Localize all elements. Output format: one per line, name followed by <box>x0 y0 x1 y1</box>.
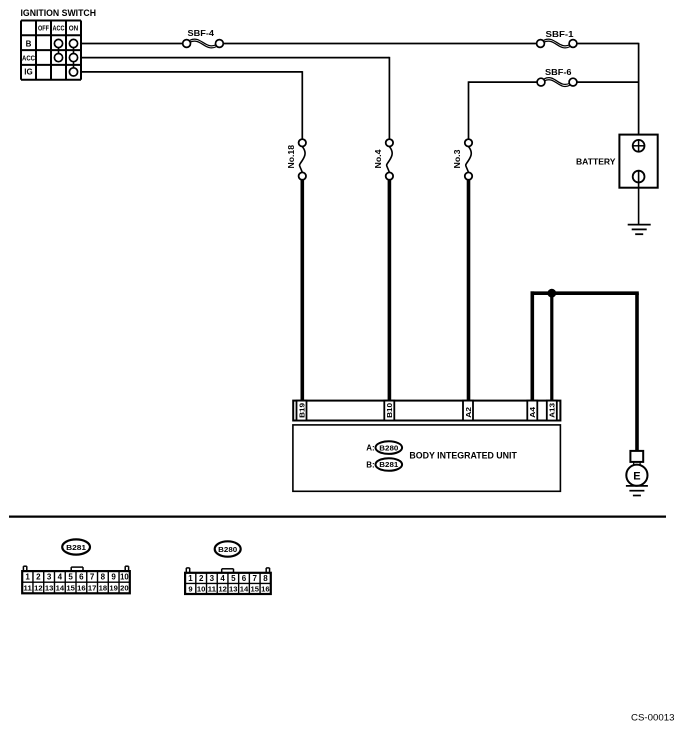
svg-text:B280: B280 <box>218 545 237 554</box>
svg-text:SBF-1: SBF-1 <box>546 29 574 39</box>
svg-text:20: 20 <box>120 584 129 593</box>
svg-text:ON: ON <box>69 24 79 33</box>
svg-text:A13: A13 <box>548 403 557 418</box>
svg-text:E: E <box>633 470 640 482</box>
svg-text:A4: A4 <box>528 407 537 418</box>
svg-text:18: 18 <box>99 584 108 593</box>
svg-text:5: 5 <box>231 574 236 583</box>
svg-text:10: 10 <box>197 584 206 593</box>
svg-text:A2: A2 <box>464 407 473 418</box>
svg-text:2: 2 <box>36 573 41 582</box>
svg-text:ACC: ACC <box>53 24 65 33</box>
svg-text:9: 9 <box>111 573 116 582</box>
svg-text:9: 9 <box>188 584 192 593</box>
svg-text:IGNITION SWITCH: IGNITION SWITCH <box>21 8 97 18</box>
svg-text:3: 3 <box>210 574 215 583</box>
svg-text:6: 6 <box>79 573 84 582</box>
svg-text:16: 16 <box>77 584 86 593</box>
svg-text:SBF-4: SBF-4 <box>188 28 215 38</box>
svg-text:B:: B: <box>366 460 374 469</box>
svg-text:19: 19 <box>109 584 118 593</box>
svg-text:17: 17 <box>88 584 97 593</box>
svg-text:10: 10 <box>120 573 129 582</box>
svg-text:15: 15 <box>250 584 259 593</box>
svg-text:OFF: OFF <box>38 24 49 33</box>
svg-text:14: 14 <box>56 584 65 593</box>
svg-text:1: 1 <box>188 574 193 583</box>
svg-text:13: 13 <box>45 584 54 593</box>
svg-text:5: 5 <box>68 573 73 582</box>
svg-text:4: 4 <box>220 574 225 583</box>
svg-text:2: 2 <box>199 574 204 583</box>
svg-text:7: 7 <box>252 574 257 583</box>
svg-text:BODY INTEGRATED UNIT: BODY INTEGRATED UNIT <box>409 451 517 461</box>
svg-text:3: 3 <box>47 573 52 582</box>
svg-text:CS-00013: CS-00013 <box>631 713 675 724</box>
svg-text:B280: B280 <box>379 443 398 452</box>
svg-text:B281: B281 <box>66 543 86 552</box>
svg-text:11: 11 <box>208 584 217 593</box>
svg-text:12: 12 <box>218 584 227 593</box>
svg-text:12: 12 <box>34 584 43 593</box>
svg-text:A:: A: <box>366 443 374 452</box>
svg-text:BATTERY: BATTERY <box>576 156 616 166</box>
svg-text:No.4: No.4 <box>373 149 383 168</box>
svg-text:SBF-6: SBF-6 <box>545 68 572 77</box>
svg-text:15: 15 <box>66 584 75 593</box>
svg-text:IG: IG <box>24 68 32 77</box>
svg-text:No.18: No.18 <box>286 145 296 169</box>
svg-text:7: 7 <box>90 573 95 582</box>
svg-text:4: 4 <box>58 573 63 582</box>
svg-text:B19: B19 <box>297 403 306 418</box>
svg-text:16: 16 <box>261 584 270 593</box>
svg-text:6: 6 <box>242 574 247 583</box>
svg-text:8: 8 <box>263 574 268 583</box>
svg-text:B10: B10 <box>385 403 394 418</box>
svg-text:8: 8 <box>101 573 106 582</box>
svg-text:B: B <box>26 39 32 48</box>
svg-text:11: 11 <box>23 584 32 593</box>
svg-text:ACC: ACC <box>22 53 35 62</box>
svg-text:No.3: No.3 <box>452 149 462 168</box>
svg-text:14: 14 <box>240 584 249 593</box>
svg-text:13: 13 <box>229 584 238 593</box>
svg-text:B281: B281 <box>379 460 398 469</box>
svg-text:1: 1 <box>25 573 30 582</box>
